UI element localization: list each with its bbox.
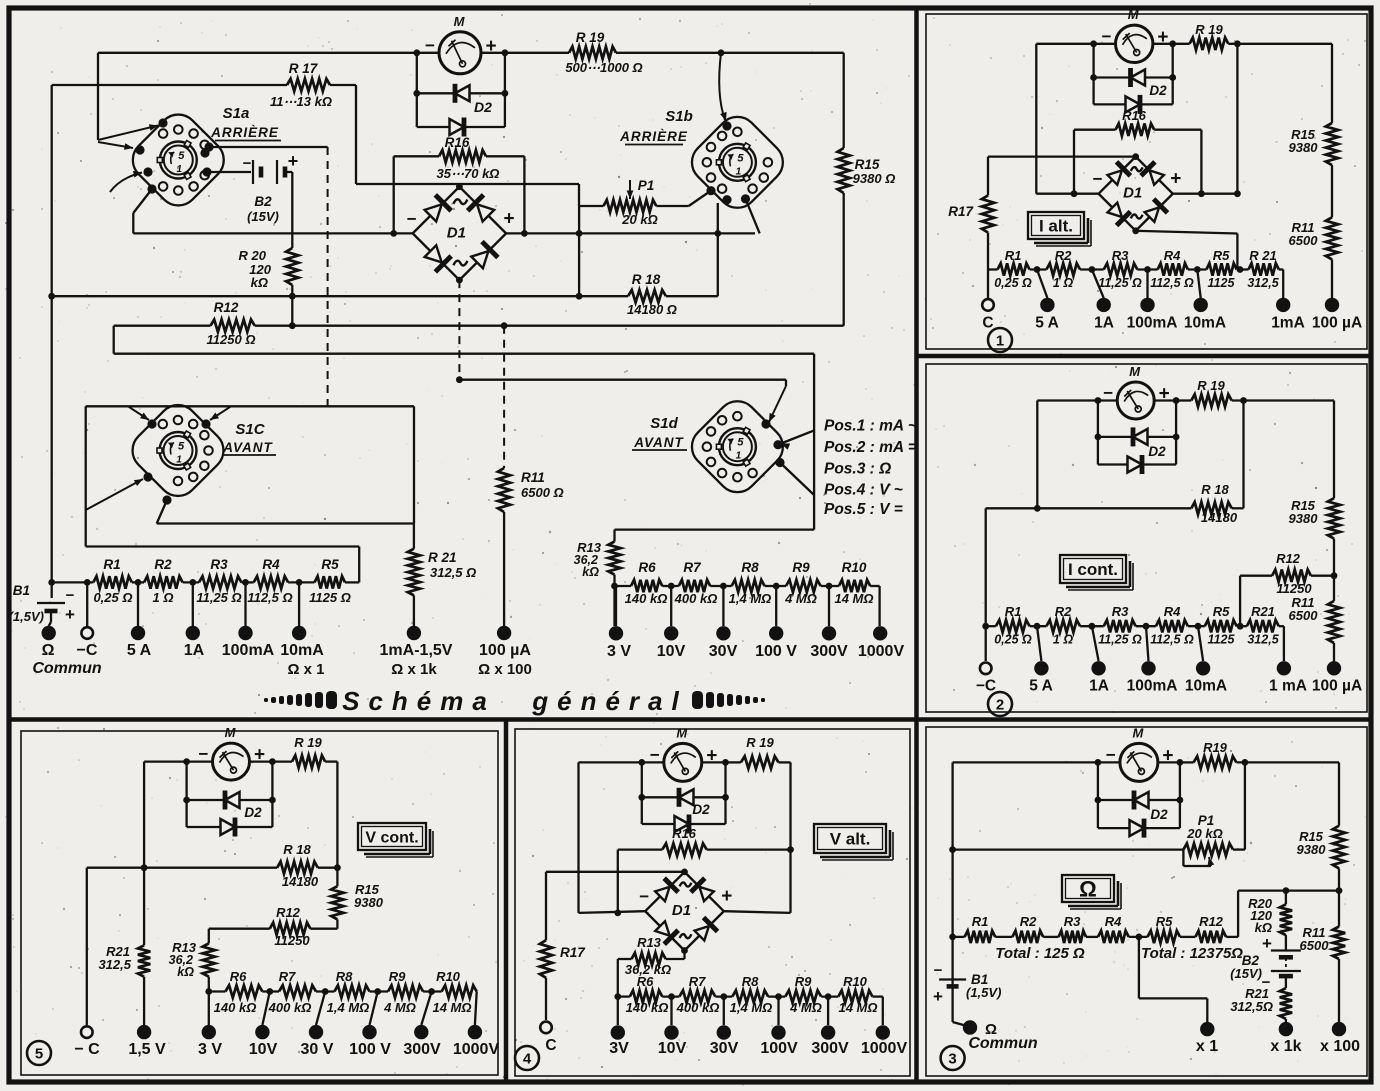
svg-text:R21: R21 xyxy=(1251,604,1275,619)
svg-text:1: 1 xyxy=(176,455,182,466)
svg-text:R2: R2 xyxy=(1055,604,1072,619)
svg-text:1: 1 xyxy=(177,164,183,175)
svg-text:R19: R19 xyxy=(1203,740,1228,755)
svg-text:(15V): (15V) xyxy=(247,209,279,224)
svg-text:D2: D2 xyxy=(1148,444,1166,459)
svg-text:x 1k: x 1k xyxy=(1270,1038,1301,1055)
svg-text:500⋯1000 Ω: 500⋯1000 Ω xyxy=(565,60,642,75)
svg-text:V cont.: V cont. xyxy=(365,829,418,846)
svg-text:R7: R7 xyxy=(689,974,706,989)
svg-text:312,5: 312,5 xyxy=(1247,276,1279,290)
svg-text:Commun: Commun xyxy=(968,1035,1038,1052)
svg-text:R 21: R 21 xyxy=(1249,248,1276,263)
svg-text:R2: R2 xyxy=(1020,914,1037,929)
svg-text:R12: R12 xyxy=(214,300,239,315)
svg-text:35⋯70 kΩ: 35⋯70 kΩ xyxy=(437,166,500,181)
svg-text:R4: R4 xyxy=(1164,248,1181,263)
svg-text:R 18: R 18 xyxy=(283,842,311,857)
svg-text:Ω: Ω xyxy=(42,642,55,659)
svg-text:R9: R9 xyxy=(795,974,812,989)
svg-text:R12: R12 xyxy=(1276,551,1301,566)
svg-text:(1,5V): (1,5V) xyxy=(966,985,1001,1000)
svg-text:général: général xyxy=(531,686,688,716)
svg-text:10mA: 10mA xyxy=(1184,315,1226,332)
svg-text:+: + xyxy=(288,151,299,171)
svg-text:11250 Ω: 11250 Ω xyxy=(207,332,256,347)
svg-text:R9: R9 xyxy=(792,560,810,575)
svg-text:D1: D1 xyxy=(1123,185,1142,202)
svg-text:100 V: 100 V xyxy=(755,643,797,660)
svg-text:Schéma: Schéma xyxy=(342,686,496,716)
svg-text:5: 5 xyxy=(737,437,744,449)
svg-text:R2: R2 xyxy=(1055,248,1072,263)
svg-text:B2: B2 xyxy=(254,194,272,209)
svg-text:R 17: R 17 xyxy=(289,61,319,76)
svg-text:11,25 Ω: 11,25 Ω xyxy=(1098,276,1142,290)
svg-text:R10: R10 xyxy=(843,974,868,989)
svg-text:14 MΩ: 14 MΩ xyxy=(432,1000,471,1015)
svg-text:1A: 1A xyxy=(184,642,205,659)
svg-text:1125 Ω: 1125 Ω xyxy=(309,590,351,605)
svg-text:5: 5 xyxy=(737,152,744,164)
svg-text:Ω x 100: Ω x 100 xyxy=(478,661,532,678)
svg-text:R7: R7 xyxy=(683,560,702,575)
svg-text:3: 3 xyxy=(948,1051,956,1068)
svg-text:6500 Ω: 6500 Ω xyxy=(521,485,564,500)
svg-text:312,5Ω: 312,5Ω xyxy=(1230,999,1273,1014)
svg-text:R 18: R 18 xyxy=(632,272,661,287)
svg-text:400 kΩ: 400 kΩ xyxy=(268,1000,312,1015)
svg-text:R5: R5 xyxy=(1156,914,1173,929)
svg-text:400 kΩ: 400 kΩ xyxy=(674,591,718,606)
svg-text:S1C: S1C xyxy=(235,421,265,438)
svg-text:6500: 6500 xyxy=(1300,938,1330,953)
svg-text:300V: 300V xyxy=(811,1040,849,1057)
svg-text:100mA: 100mA xyxy=(222,642,275,659)
svg-text:D2: D2 xyxy=(692,802,710,817)
svg-text:3 V: 3 V xyxy=(198,1041,222,1058)
svg-text:V alt.: V alt. xyxy=(830,830,871,849)
svg-text:I cont.: I cont. xyxy=(1068,560,1118,579)
svg-text:140 kΩ: 140 kΩ xyxy=(625,591,668,606)
svg-text:x 100: x 100 xyxy=(1320,1038,1360,1055)
svg-text:10V: 10V xyxy=(657,643,686,660)
svg-text:5: 5 xyxy=(178,150,185,162)
svg-text:R7: R7 xyxy=(279,969,296,984)
svg-text:R3: R3 xyxy=(1064,914,1081,929)
svg-text:R13: R13 xyxy=(637,935,662,950)
svg-text:B1: B1 xyxy=(13,583,30,598)
svg-text:− C: − C xyxy=(74,1041,100,1058)
svg-text:Pos.5 : V =: Pos.5 : V = xyxy=(824,501,903,518)
svg-text:Pos.2 : mA =: Pos.2 : mA = xyxy=(824,439,917,456)
svg-text:R6: R6 xyxy=(638,560,656,575)
svg-text:Total : 125 Ω: Total : 125 Ω xyxy=(995,945,1085,962)
svg-text:−C: −C xyxy=(77,642,98,659)
svg-text:(1,5V): (1,5V) xyxy=(9,609,44,624)
svg-text:+: + xyxy=(1262,934,1272,953)
svg-text:1: 1 xyxy=(996,333,1004,350)
svg-text:Pos.4 : V ~: Pos.4 : V ~ xyxy=(824,482,903,499)
svg-text:M: M xyxy=(1132,725,1144,740)
svg-text:5 A: 5 A xyxy=(1029,678,1053,695)
svg-text:+: + xyxy=(1170,169,1181,190)
svg-text:D2: D2 xyxy=(1150,807,1168,822)
svg-text:Pos.1 : mA ~: Pos.1 : mA ~ xyxy=(824,418,917,435)
svg-text:R12: R12 xyxy=(276,905,301,920)
svg-text:10V: 10V xyxy=(249,1041,278,1058)
svg-text:312,5: 312,5 xyxy=(98,957,131,972)
svg-text:+: + xyxy=(721,886,732,907)
svg-text:Ω: Ω xyxy=(1079,876,1097,901)
svg-text:R1: R1 xyxy=(1005,604,1022,619)
svg-text:2: 2 xyxy=(996,697,1004,714)
svg-text:1 mA: 1 mA xyxy=(1269,678,1307,695)
svg-text:1: 1 xyxy=(736,451,742,462)
svg-text:R11: R11 xyxy=(521,470,545,485)
svg-text:400 kΩ: 400 kΩ xyxy=(676,1000,720,1015)
svg-text:0,25 Ω: 0,25 Ω xyxy=(93,590,132,605)
svg-text:−: − xyxy=(1093,170,1103,189)
svg-text:1,4 MΩ: 1,4 MΩ xyxy=(729,591,772,606)
svg-text:M: M xyxy=(676,725,688,740)
svg-text:S1b: S1b xyxy=(665,108,693,125)
svg-text:9380 Ω: 9380 Ω xyxy=(853,171,896,186)
svg-text:100mA: 100mA xyxy=(1127,315,1178,332)
svg-text:4 MΩ: 4 MΩ xyxy=(383,1000,416,1015)
svg-text:R3: R3 xyxy=(1112,248,1129,263)
svg-text:+: + xyxy=(933,987,943,1006)
svg-text:100 µA: 100 µA xyxy=(479,642,531,659)
svg-text:R12: R12 xyxy=(1199,914,1224,929)
svg-text:M: M xyxy=(1128,7,1140,22)
svg-text:312,5: 312,5 xyxy=(1247,633,1279,647)
svg-text:−: − xyxy=(66,587,75,604)
svg-text:ARRIÈRE: ARRIÈRE xyxy=(210,125,279,140)
svg-text:R6: R6 xyxy=(637,974,654,989)
svg-text:112,5 Ω: 112,5 Ω xyxy=(1150,633,1194,647)
svg-text:kΩ: kΩ xyxy=(582,565,599,579)
svg-text:R10: R10 xyxy=(842,560,867,575)
svg-text:1,4 MΩ: 1,4 MΩ xyxy=(730,1000,773,1015)
svg-text:R16: R16 xyxy=(1122,108,1147,123)
svg-text:0,25 Ω: 0,25 Ω xyxy=(994,276,1032,290)
svg-text:R8: R8 xyxy=(742,974,759,989)
svg-text:6500: 6500 xyxy=(1289,608,1319,623)
svg-text:11250: 11250 xyxy=(274,933,310,948)
svg-text:10V: 10V xyxy=(658,1040,687,1057)
svg-text:R9: R9 xyxy=(389,969,406,984)
svg-text:x 1: x 1 xyxy=(1196,1038,1218,1055)
svg-text:−: − xyxy=(407,209,417,228)
svg-text:kΩ: kΩ xyxy=(1255,920,1272,935)
svg-text:R 19: R 19 xyxy=(1195,22,1223,37)
svg-text:100 µA: 100 µA xyxy=(1312,678,1362,695)
svg-text:S1a: S1a xyxy=(223,105,250,122)
svg-text:Commun: Commun xyxy=(32,660,102,677)
svg-text:R17: R17 xyxy=(560,945,586,960)
svg-text:(15V): (15V) xyxy=(1230,966,1262,981)
svg-text:9380: 9380 xyxy=(1297,842,1327,857)
svg-text:1 Ω: 1 Ω xyxy=(153,590,174,605)
svg-text:D2: D2 xyxy=(474,99,492,115)
svg-text:R2: R2 xyxy=(154,557,172,572)
svg-text:3 V: 3 V xyxy=(607,643,631,660)
svg-text:4 MΩ: 4 MΩ xyxy=(784,591,817,606)
svg-text:R4: R4 xyxy=(1164,604,1181,619)
svg-text:C: C xyxy=(982,315,993,332)
svg-text:R17: R17 xyxy=(948,204,974,219)
svg-text:R1: R1 xyxy=(972,914,989,929)
svg-text:R15: R15 xyxy=(855,157,880,172)
svg-text:1 Ω: 1 Ω xyxy=(1053,276,1073,290)
svg-text:1 Ω: 1 Ω xyxy=(1053,633,1073,647)
svg-text:9380: 9380 xyxy=(1289,140,1319,155)
svg-text:M: M xyxy=(1129,364,1141,379)
svg-text:−: − xyxy=(243,155,252,172)
svg-text:5 A: 5 A xyxy=(1035,315,1059,332)
svg-text:R16: R16 xyxy=(445,135,470,150)
svg-text:30V: 30V xyxy=(710,1040,739,1057)
svg-text:R1: R1 xyxy=(1005,248,1022,263)
svg-text:R6: R6 xyxy=(230,969,247,984)
svg-text:Pos.3 : Ω: Pos.3 : Ω xyxy=(824,461,891,478)
svg-text:I alt.: I alt. xyxy=(1039,217,1073,236)
svg-text:1mA: 1mA xyxy=(1271,315,1305,332)
svg-text:Total : 12375Ω: Total : 12375Ω xyxy=(1141,945,1243,962)
svg-text:300V: 300V xyxy=(810,643,848,660)
svg-text:1,5 V: 1,5 V xyxy=(128,1041,166,1058)
svg-text:R 20: R 20 xyxy=(239,248,267,263)
svg-text:4 MΩ: 4 MΩ xyxy=(789,1000,822,1015)
svg-text:100 V: 100 V xyxy=(349,1041,391,1058)
svg-text:1,4 MΩ: 1,4 MΩ xyxy=(327,1000,370,1015)
svg-text:3V: 3V xyxy=(609,1040,629,1057)
svg-text:R4: R4 xyxy=(1105,914,1122,929)
svg-text:100mA: 100mA xyxy=(1127,678,1178,695)
svg-text:1125: 1125 xyxy=(1208,633,1236,647)
svg-text:140 kΩ: 140 kΩ xyxy=(626,1000,669,1015)
svg-text:R1: R1 xyxy=(103,557,120,572)
svg-text:kΩ: kΩ xyxy=(177,965,194,979)
svg-text:D1: D1 xyxy=(447,224,466,241)
svg-text:100 µA: 100 µA xyxy=(1312,315,1362,332)
svg-text:1: 1 xyxy=(736,166,742,177)
svg-text:+: + xyxy=(65,605,75,624)
svg-text:−: − xyxy=(934,962,943,979)
svg-text:R4: R4 xyxy=(262,557,280,572)
svg-text:AVANT: AVANT xyxy=(222,440,273,455)
svg-text:20 kΩ: 20 kΩ xyxy=(621,212,657,227)
svg-text:1A: 1A xyxy=(1094,315,1114,332)
svg-text:11⋯13 kΩ: 11⋯13 kΩ xyxy=(270,94,332,109)
svg-text:S1d: S1d xyxy=(650,415,678,432)
svg-text:6500: 6500 xyxy=(1289,233,1319,248)
svg-text:300V: 300V xyxy=(403,1041,441,1058)
svg-text:1000V: 1000V xyxy=(858,643,905,660)
svg-text:kΩ: kΩ xyxy=(251,275,268,290)
svg-text:Ω x 1: Ω x 1 xyxy=(287,661,324,678)
svg-text:R3: R3 xyxy=(1112,604,1129,619)
svg-text:4: 4 xyxy=(523,1051,532,1068)
svg-text:20 kΩ: 20 kΩ xyxy=(1186,826,1222,841)
svg-text:5: 5 xyxy=(178,441,185,453)
svg-text:14180: 14180 xyxy=(282,874,319,889)
svg-text:30 V: 30 V xyxy=(301,1041,334,1058)
svg-text:1125: 1125 xyxy=(1208,276,1236,290)
svg-text:R 21: R 21 xyxy=(428,550,457,565)
svg-text:R5: R5 xyxy=(321,557,339,572)
svg-text:30V: 30V xyxy=(709,643,738,660)
svg-text:R5: R5 xyxy=(1213,604,1230,619)
svg-text:D2: D2 xyxy=(1149,83,1167,98)
svg-text:R5: R5 xyxy=(1213,248,1230,263)
svg-text:112,5 Ω: 112,5 Ω xyxy=(1150,276,1194,290)
svg-text:14180: 14180 xyxy=(1201,510,1238,525)
svg-text:10mA: 10mA xyxy=(1185,678,1227,695)
svg-text:312,5 Ω: 312,5 Ω xyxy=(430,565,476,580)
svg-text:D2: D2 xyxy=(244,805,262,820)
svg-text:5 A: 5 A xyxy=(127,642,152,659)
svg-text:100V: 100V xyxy=(760,1040,798,1057)
svg-text:ARRIÈRE: ARRIÈRE xyxy=(619,129,688,144)
svg-text:5: 5 xyxy=(35,1046,43,1063)
svg-text:1A: 1A xyxy=(1089,678,1109,695)
svg-text:R 19: R 19 xyxy=(746,735,774,750)
svg-text:R8: R8 xyxy=(336,969,353,984)
svg-text:9380: 9380 xyxy=(1289,511,1319,526)
svg-text:11,25 Ω: 11,25 Ω xyxy=(1098,633,1142,647)
svg-text:R10: R10 xyxy=(436,969,461,984)
svg-text:R 19: R 19 xyxy=(1197,378,1225,393)
svg-text:P1: P1 xyxy=(638,178,655,193)
svg-text:1000V: 1000V xyxy=(453,1041,500,1058)
svg-text:1000V: 1000V xyxy=(861,1040,908,1057)
svg-text:−C: −C xyxy=(976,678,996,695)
svg-text:R 19: R 19 xyxy=(294,735,322,750)
svg-text:14 MΩ: 14 MΩ xyxy=(834,591,873,606)
svg-text:Ω x 1k: Ω x 1k xyxy=(391,661,437,678)
svg-text:112,5 Ω: 112,5 Ω xyxy=(247,590,292,605)
svg-text:M: M xyxy=(454,14,466,29)
svg-text:R 19: R 19 xyxy=(576,30,605,45)
svg-text:140 kΩ: 140 kΩ xyxy=(214,1000,257,1015)
svg-text:14 MΩ: 14 MΩ xyxy=(838,1000,877,1015)
svg-text:1mA-1,5V: 1mA-1,5V xyxy=(380,642,453,659)
svg-text:−: − xyxy=(639,887,649,906)
svg-text:14180 Ω: 14180 Ω xyxy=(627,302,677,317)
svg-text:R8: R8 xyxy=(741,560,759,575)
svg-text:R16: R16 xyxy=(672,826,697,841)
svg-text:+: + xyxy=(504,208,515,229)
svg-text:0,25 Ω: 0,25 Ω xyxy=(994,633,1032,647)
svg-text:C: C xyxy=(545,1037,556,1054)
svg-text:D1: D1 xyxy=(672,902,691,919)
svg-text:R3: R3 xyxy=(210,557,228,572)
svg-text:M: M xyxy=(225,725,237,740)
svg-text:11,25 Ω: 11,25 Ω xyxy=(196,590,241,605)
svg-text:10mA: 10mA xyxy=(280,642,324,659)
svg-text:9380: 9380 xyxy=(354,895,384,910)
svg-text:11250: 11250 xyxy=(1276,581,1312,596)
svg-text:AVANT: AVANT xyxy=(633,435,684,450)
svg-text:R 18: R 18 xyxy=(1201,482,1229,497)
